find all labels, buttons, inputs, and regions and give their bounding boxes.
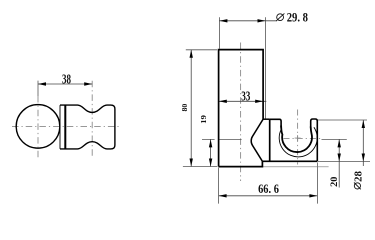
mystery thin line at stem bottom level (263, 166, 329, 168)
svg-text:33: 33 (241, 89, 250, 104)
dia29.8 extension right (265, 17, 267, 119)
svg-text:66. 6: 66. 6 (258, 181, 279, 196)
centerline vertical ball (37, 96, 39, 158)
spool body outline (60, 105, 115, 149)
dia28 top extension (318, 119, 368, 121)
dia29.8 extension left (218, 17, 220, 49)
dia29.8 dimension line (219, 20, 277, 22)
centerline vertical waist (91, 81, 93, 158)
clip block bottom edge (262, 160, 317, 162)
dim 20/dia28 bottom extension (318, 161, 370, 163)
stem bottom edge (219, 161, 263, 166)
dim 33 line (219, 100, 266, 102)
dim 20 top extension (322, 138, 347, 140)
dim 66.6 right extension (316, 163, 318, 204)
dim 80 line (190, 50, 192, 167)
dim 19 line (210, 139, 212, 166)
centerline horizontal left view (12, 125, 119, 127)
C inner hole arc (thick) with lips (281, 126, 312, 153)
center cross of C (295, 135, 301, 141)
stem outline (219, 50, 264, 167)
svg-text:20: 20 (329, 176, 339, 187)
ball circle (16, 105, 60, 149)
dim 80 top extension (186, 49, 217, 51)
svg-text:38: 38 (62, 72, 71, 87)
clip block left edge (269, 119, 271, 161)
dim text dia28 rotated (353, 171, 364, 189)
clip block top edge + C-slot walls + right edge (270, 119, 318, 161)
centerline clip horizontal (284, 137, 323, 139)
svg-text:28: 28 (353, 171, 364, 182)
svg-text:19: 19 (199, 115, 208, 124)
dim 66.6 line (219, 195, 318, 197)
dim 20 line (338, 139, 340, 187)
centerline clip vertical (297, 110, 299, 165)
C outer arc (thin) (279, 127, 317, 157)
dia symbol 29.8 (276, 13, 284, 21)
dim 19 top extension / clip center projection (202, 138, 242, 140)
dia28 dim line (362, 120, 364, 166)
centerline stem vertical (240, 43, 242, 182)
dimension 38 (38, 83, 92, 85)
svg-text:29. 8: 29. 8 (287, 10, 309, 25)
spool flange left thin edge (59, 105, 61, 149)
dim 80/19 bottom extension (183, 166, 217, 168)
spool silhouette hexagon (251, 119, 263, 161)
svg-text:80: 80 (180, 103, 189, 111)
extension line from ball center up (37, 81, 39, 96)
shelf at clip top left (263, 118, 270, 120)
dim 66.6 left extension (218, 168, 220, 204)
spool flange thick edge (64, 105, 66, 150)
